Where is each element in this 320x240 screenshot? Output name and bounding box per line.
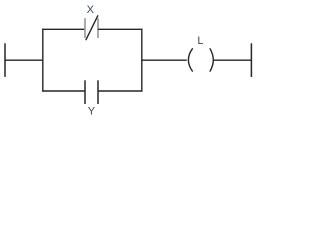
wire bus to coil <box>141 59 187 61</box>
svg-text:L: L <box>197 35 203 47</box>
wire bottom branch left <box>42 90 85 92</box>
wire coil to right rail <box>214 59 252 61</box>
svg-text:X: X <box>87 4 95 16</box>
coil L <box>188 48 213 71</box>
svg-text:Y: Y <box>88 105 96 117</box>
wire top branch right <box>98 28 142 30</box>
wire bottom branch right <box>98 90 142 92</box>
right power rail <box>250 43 252 77</box>
left power rail <box>4 43 6 77</box>
wire left rail to branch bus <box>4 59 43 61</box>
contact Y (normally open) <box>85 80 98 104</box>
wire top branch left <box>42 28 85 30</box>
contact X (normally closed) <box>85 15 98 40</box>
node right branch bus <box>141 29 143 92</box>
node left branch bus <box>42 29 44 92</box>
